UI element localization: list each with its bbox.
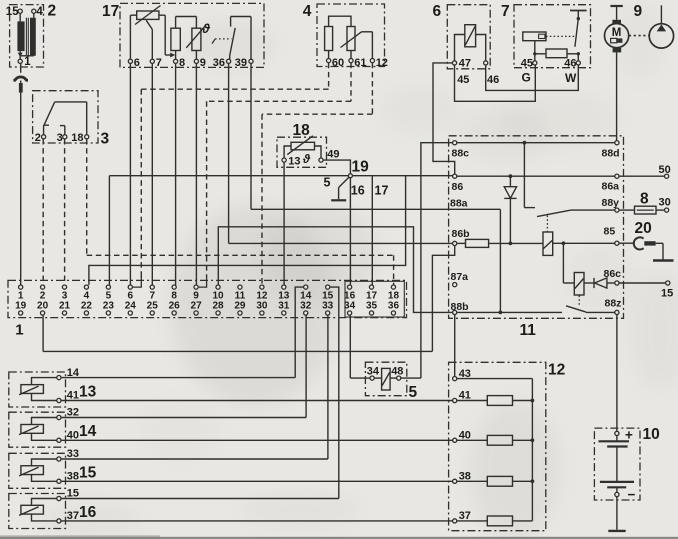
svg-text:5: 5 [324, 176, 331, 190]
svg-text:61: 61 [354, 57, 366, 69]
svg-text:86b: 86b [452, 228, 470, 240]
svg-text:23: 23 [103, 301, 115, 312]
svg-text:2: 2 [48, 3, 57, 20]
svg-text:39: 39 [235, 57, 247, 69]
svg-text:15: 15 [6, 6, 19, 18]
svg-text:28: 28 [212, 301, 224, 312]
svg-text:87a: 87a [451, 271, 469, 283]
svg-text:4: 4 [36, 6, 43, 18]
svg-text:13: 13 [79, 383, 97, 400]
svg-text:M: M [612, 27, 622, 39]
svg-text:35: 35 [366, 301, 378, 312]
svg-text:50: 50 [659, 164, 671, 176]
svg-text:17: 17 [375, 184, 389, 198]
svg-text:W: W [565, 71, 577, 85]
svg-text:1: 1 [15, 322, 23, 339]
svg-text:12: 12 [548, 362, 565, 379]
svg-text:9: 9 [200, 57, 206, 69]
svg-text:18: 18 [293, 122, 311, 139]
svg-text:−: − [628, 487, 636, 502]
svg-text:33: 33 [322, 301, 334, 312]
svg-text:46: 46 [564, 58, 576, 70]
svg-text:16: 16 [351, 184, 365, 198]
svg-text:24: 24 [125, 301, 137, 312]
svg-text:10: 10 [643, 426, 660, 443]
svg-text:7: 7 [156, 57, 162, 69]
svg-text:88z: 88z [605, 297, 622, 309]
svg-text:25: 25 [147, 301, 159, 312]
svg-text:8: 8 [179, 57, 185, 69]
svg-text:29: 29 [234, 301, 246, 312]
svg-text:12: 12 [376, 57, 388, 69]
svg-text:14: 14 [79, 423, 97, 440]
svg-text:2: 2 [35, 132, 41, 144]
svg-text:20: 20 [635, 220, 652, 237]
svg-text:18: 18 [71, 132, 83, 144]
svg-text:19: 19 [15, 301, 27, 312]
svg-text:45: 45 [457, 74, 469, 86]
svg-text:34: 34 [344, 301, 356, 312]
svg-text:15: 15 [79, 464, 97, 481]
svg-text:88c: 88c [452, 148, 470, 160]
svg-text:88b: 88b [451, 301, 469, 313]
svg-text:5: 5 [409, 384, 418, 401]
svg-text:8: 8 [640, 191, 649, 208]
svg-text:88d: 88d [602, 148, 620, 160]
svg-text:11: 11 [520, 322, 537, 339]
svg-text:88a: 88a [450, 198, 468, 210]
svg-text:60: 60 [332, 57, 344, 69]
svg-text:30: 30 [659, 197, 671, 209]
svg-text:49: 49 [327, 149, 339, 161]
svg-text:36: 36 [388, 301, 400, 312]
svg-text:6: 6 [134, 57, 140, 69]
svg-text:86: 86 [452, 181, 464, 193]
svg-text:47: 47 [459, 58, 471, 70]
svg-text:9: 9 [634, 3, 643, 20]
svg-text:6: 6 [433, 3, 442, 20]
svg-text:30: 30 [256, 301, 268, 312]
svg-text:7: 7 [501, 3, 510, 20]
svg-text:32: 32 [300, 301, 312, 312]
svg-text:45: 45 [521, 58, 533, 70]
svg-text:3: 3 [101, 131, 110, 148]
svg-text:86a: 86a [602, 181, 620, 193]
svg-text:31: 31 [278, 301, 290, 312]
svg-text:26: 26 [169, 301, 181, 312]
svg-text:G: G [522, 71, 531, 85]
svg-text:22: 22 [81, 301, 93, 312]
svg-text:19: 19 [352, 159, 370, 176]
svg-text:27: 27 [191, 301, 203, 312]
svg-text:36: 36 [213, 57, 225, 69]
svg-text:16: 16 [79, 504, 97, 521]
svg-text:3: 3 [57, 132, 63, 144]
svg-text:85: 85 [604, 226, 616, 238]
svg-text:15: 15 [661, 288, 673, 300]
svg-text:13: 13 [288, 156, 300, 168]
svg-text:ϑ: ϑ [302, 152, 311, 166]
svg-text:ϑ: ϑ [201, 21, 210, 36]
svg-text:88y: 88y [602, 197, 620, 209]
svg-text:21: 21 [59, 301, 71, 312]
svg-text:20: 20 [37, 301, 49, 312]
svg-text:46: 46 [487, 74, 499, 86]
svg-text:+: + [625, 427, 633, 442]
svg-text:1: 1 [24, 56, 31, 68]
svg-text:4: 4 [303, 3, 312, 20]
svg-text:17: 17 [102, 3, 119, 20]
